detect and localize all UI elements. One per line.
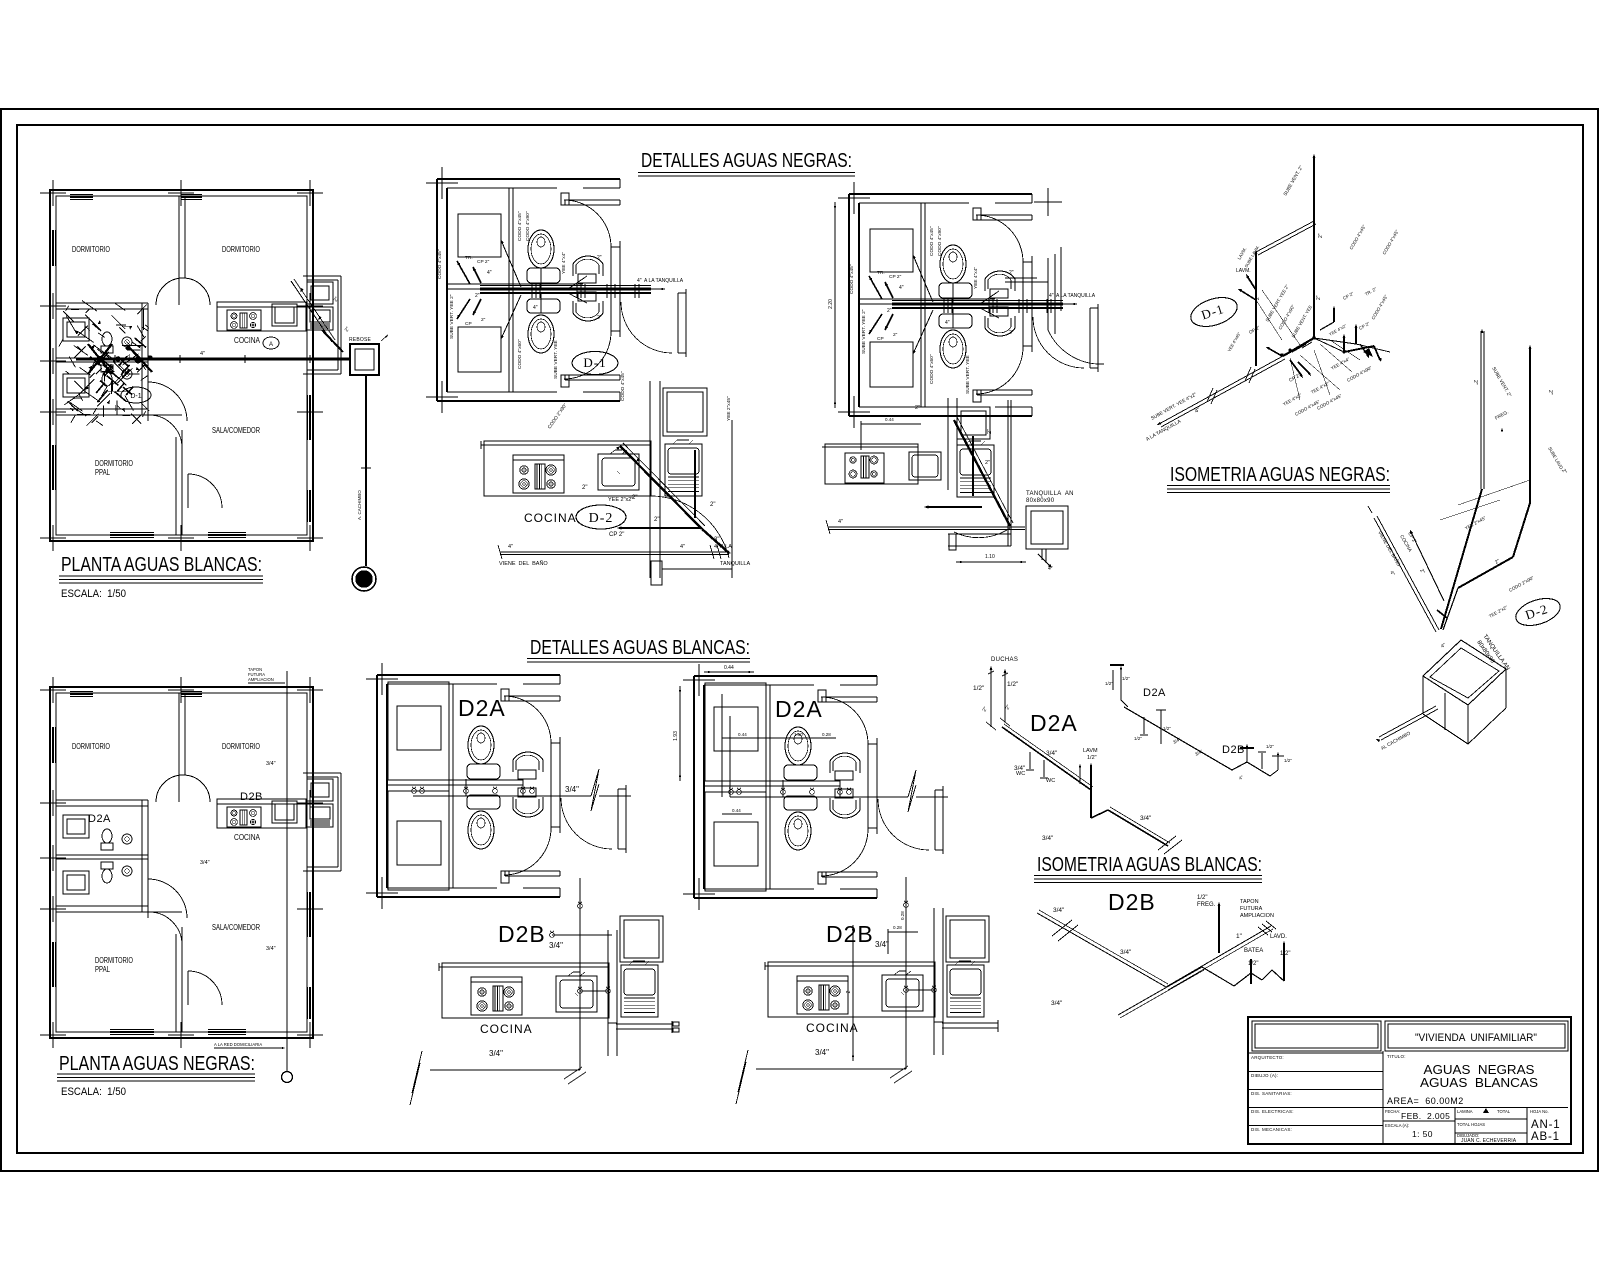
svg-text:1.93: 1.93: [673, 731, 679, 741]
svg-text:3/4": 3/4": [266, 946, 276, 952]
svg-text:0.28: 0.28: [893, 925, 902, 930]
svg-text:1": 1": [1236, 933, 1243, 940]
svg-text:D2A: D2A: [88, 813, 111, 825]
svg-text:HOJA No.: HOJA No.: [1530, 1109, 1549, 1114]
svg-text:2": 2": [1547, 390, 1553, 395]
svg-text:80x80x90: 80x80x90: [1026, 498, 1055, 504]
svg-text:"VIVIENDA UNIFAMILIAR": "VIVIENDA UNIFAMILIAR": [1415, 1032, 1537, 1044]
svg-text:TOTAL: TOTAL: [1497, 1109, 1511, 1114]
svg-text:CODO 4"x45": CODO 4"x45": [620, 371, 626, 401]
svg-text:4" A LA: 4" A LA: [714, 544, 732, 550]
svg-text:LAMINA: LAMINA: [1457, 1109, 1473, 1114]
svg-text:2": 2": [985, 460, 990, 466]
svg-text:3/4": 3/4": [1051, 1000, 1063, 1007]
svg-text:AGUAS BLANCAS: AGUAS BLANCAS: [1420, 1076, 1538, 1090]
svg-text:A LA RED DOMICILIARIA: A LA RED DOMICILIARIA: [214, 1042, 262, 1047]
svg-text:DIS. ELECTRICAS:: DIS. ELECTRICAS:: [1251, 1109, 1294, 1114]
svg-text:AREA= 60.00M2: AREA= 60.00M2: [1387, 1096, 1464, 1106]
svg-text:1.10: 1.10: [794, 732, 803, 737]
svg-text:JUAN C. ECHEVERRIA: JUAN C. ECHEVERRIA: [1461, 1138, 1517, 1144]
svg-text:1/2": 1/2": [1007, 681, 1019, 688]
svg-text:1.10: 1.10: [985, 554, 995, 560]
svg-text:D2B: D2B: [498, 921, 546, 947]
svg-text:FREG.: FREG.: [1197, 902, 1216, 908]
svg-text:1/2": 1/2": [1105, 681, 1113, 686]
svg-text:COCINA: COCINA: [524, 511, 577, 525]
svg-text:FEB. 2.005: FEB. 2.005: [1401, 1111, 1450, 1121]
svg-text:4": 4": [200, 351, 205, 357]
svg-text:D2B: D2B: [826, 921, 874, 947]
svg-text:0.28: 0.28: [900, 911, 905, 920]
svg-text:1/2": 1/2": [1163, 726, 1171, 731]
svg-text:2": 2": [915, 405, 920, 411]
svg-text:TANQUILLA: TANQUILLA: [720, 561, 750, 567]
svg-text:COCINA: COCINA: [806, 1021, 859, 1035]
svg-text:PLANTA AGUAS BLANCAS:: PLANTA AGUAS BLANCAS:: [61, 554, 262, 576]
svg-text:D2B: D2B: [1222, 744, 1245, 756]
svg-text:D-1: D-1: [583, 355, 606, 370]
svg-text:1/2": 1/2": [1280, 951, 1290, 957]
svg-text:AMPLIACION: AMPLIACION: [248, 677, 274, 682]
svg-text:ISOMETRIA AGUAS NEGRAS:: ISOMETRIA AGUAS NEGRAS:: [1170, 464, 1390, 486]
svg-text:TITULO:: TITULO:: [1387, 1054, 1406, 1059]
svg-text:AN-1: AN-1: [1531, 1119, 1560, 1131]
svg-text:YEE 2"x45": YEE 2"x45": [726, 396, 732, 421]
svg-text:3/4": 3/4": [875, 940, 889, 949]
svg-text:FUTURA: FUTURA: [1240, 906, 1263, 912]
svg-text:3/4": 3/4": [1046, 750, 1058, 757]
svg-text:1/2": 1/2": [1266, 744, 1274, 749]
svg-text:D2A: D2A: [775, 696, 823, 722]
svg-text:PLANTA AGUAS NEGRAS:: PLANTA AGUAS NEGRAS:: [59, 1053, 255, 1075]
svg-text:FECHA:: FECHA:: [1385, 1109, 1400, 1114]
svg-text:2: 2: [846, 990, 852, 993]
svg-text:1/2": 1/2": [1248, 961, 1258, 967]
svg-text:DIS. MECANICAS:: DIS. MECANICAS:: [1251, 1127, 1292, 1132]
svg-text:1/2": 1/2": [1122, 676, 1130, 681]
svg-text:3/4": 3/4": [1140, 815, 1152, 822]
svg-text:0.28: 0.28: [822, 732, 831, 737]
svg-text:0.44: 0.44: [738, 732, 747, 737]
svg-text:2": 2": [1255, 295, 1261, 300]
svg-text:4": 4": [1048, 566, 1053, 572]
svg-text:0.44: 0.44: [885, 417, 894, 422]
svg-text:AMPLIACION: AMPLIACION: [1240, 913, 1274, 919]
svg-text:D-1: D-1: [130, 393, 141, 400]
svg-text:2": 2": [1316, 295, 1322, 300]
svg-text:D2A: D2A: [1030, 710, 1078, 736]
svg-text:COCINA: COCINA: [480, 1022, 533, 1036]
svg-text:2": 2": [654, 517, 659, 523]
svg-text:D-2: D-2: [589, 511, 614, 526]
svg-text:A. CACHIMBO: A. CACHIMBO: [357, 490, 362, 520]
svg-text:2": 2": [1318, 233, 1324, 238]
svg-text:1/2": 1/2": [1134, 736, 1142, 741]
svg-text:1/2": 1/2": [1284, 758, 1292, 763]
svg-text:3/4": 3/4": [1053, 907, 1065, 914]
svg-text:1/2": 1/2": [1197, 895, 1207, 901]
svg-text:3/4": 3/4": [266, 761, 276, 767]
svg-text:D2B: D2B: [240, 791, 263, 803]
svg-text:DIS. SANITARIAS:: DIS. SANITARIAS:: [1251, 1091, 1292, 1096]
svg-text:D2A: D2A: [1143, 687, 1166, 699]
svg-text:1: 50: 1: 50: [1412, 1129, 1433, 1139]
svg-text:4": 4": [680, 544, 685, 550]
svg-text:D2B: D2B: [1108, 889, 1156, 915]
svg-text:2": 2": [710, 502, 715, 508]
svg-text:TAPON: TAPON: [1240, 899, 1259, 905]
svg-text:4": 4": [838, 519, 843, 525]
svg-text:ARQUITECTO:: ARQUITECTO:: [1251, 1055, 1284, 1060]
svg-text:WC: WC: [1046, 778, 1055, 784]
svg-text:CP 2": CP 2": [609, 532, 624, 538]
svg-text:2": 2": [582, 485, 587, 491]
svg-text:2": 2": [1472, 380, 1478, 385]
svg-text:3/4": 3/4": [200, 860, 210, 866]
svg-text:DETALLES AGUAS BLANCAS:: DETALLES AGUAS BLANCAS:: [530, 637, 750, 659]
svg-text:3/4": 3/4": [565, 785, 579, 794]
svg-text:2.20: 2.20: [828, 299, 834, 309]
svg-text:LAVM.: LAVM.: [1236, 268, 1251, 274]
svg-text:3/4": 3/4": [549, 941, 563, 950]
svg-text:TOTAL HOJAS: TOTAL HOJAS: [1457, 1122, 1485, 1127]
svg-text:4": 4": [508, 544, 513, 550]
svg-text:3/4": 3/4": [1042, 835, 1054, 842]
svg-text:A: A: [269, 342, 273, 348]
svg-text:2": 2": [987, 429, 993, 434]
svg-text:0.44: 0.44: [732, 808, 741, 813]
svg-text:ISOMETRIA AGUAS BLANCAS:: ISOMETRIA AGUAS BLANCAS:: [1037, 854, 1262, 876]
svg-text:1/2": 1/2": [1087, 755, 1097, 761]
svg-text:VIENE DEL BAÑO: VIENE DEL BAÑO: [499, 560, 548, 567]
svg-text:3/4": 3/4": [489, 1049, 503, 1058]
svg-text:AB-1: AB-1: [1531, 1131, 1560, 1143]
svg-text:D2A: D2A: [458, 695, 506, 721]
svg-text:LAVD.: LAVD.: [1270, 934, 1287, 940]
svg-text:AGUAS NEGRAS: AGUAS NEGRAS: [1424, 1063, 1535, 1077]
svg-text:3/4": 3/4": [1120, 949, 1132, 956]
svg-text:DIBUJO (A):: DIBUJO (A):: [1251, 1073, 1278, 1078]
svg-text:3/4": 3/4": [1014, 765, 1026, 772]
svg-text:REBOSE: REBOSE: [349, 337, 372, 343]
svg-text:BATEA: BATEA: [1244, 948, 1263, 954]
svg-text:3": 3": [714, 537, 719, 543]
svg-text:1/2": 1/2": [973, 685, 985, 692]
svg-text:LAVM: LAVM: [1083, 748, 1098, 754]
svg-text:YEE 2"x2": YEE 2"x2": [608, 497, 633, 503]
svg-text:DETALLES AGUAS NEGRAS:: DETALLES AGUAS NEGRAS:: [641, 150, 852, 172]
svg-text:3/4": 3/4": [815, 1048, 829, 1057]
svg-text:ESCALA (A):: ESCALA (A):: [1385, 1123, 1409, 1128]
svg-text:DUCHAS: DUCHAS: [991, 657, 1018, 663]
svg-text:ESCALA: 1/50: ESCALA: 1/50: [61, 588, 126, 600]
svg-text:ESCALA: 1/50: ESCALA: 1/50: [61, 1086, 126, 1098]
svg-text:TANQUILLA AN: TANQUILLA AN: [1026, 491, 1074, 497]
svg-text:0.44: 0.44: [724, 665, 734, 671]
